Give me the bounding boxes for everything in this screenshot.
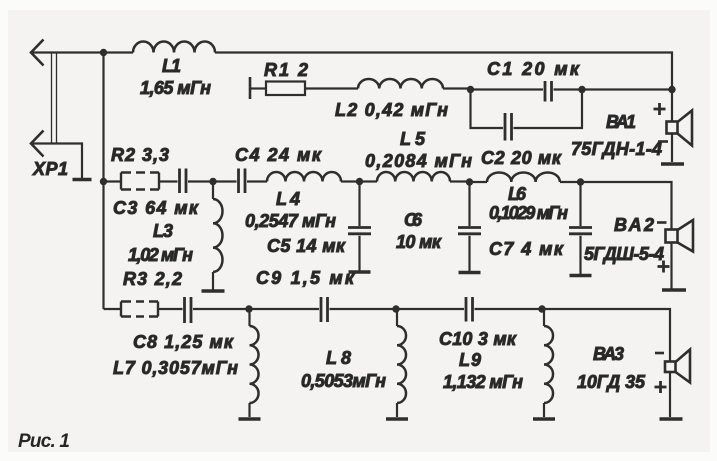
svg-text:0,2547 мГн: 0,2547 мГн <box>245 211 336 231</box>
node K <box>392 305 399 312</box>
node E (speaker BA1 top) <box>668 86 675 93</box>
svg-text:10ГД 35: 10ГД 35 <box>577 372 646 392</box>
wire node H to L6 <box>470 181 488 183</box>
capacitor C1 <box>545 81 552 102</box>
wire node F to C4 <box>213 180 237 182</box>
wire C4 to L4 <box>247 180 267 182</box>
resistor R3 (dashed) <box>121 302 158 317</box>
inductor L1 <box>133 42 215 53</box>
wire top row L1 to right corner <box>215 53 672 90</box>
wire node K to C10 <box>396 308 464 310</box>
svg-text:C9 1,5 мк: C9 1,5 мк <box>256 268 355 288</box>
inductor L3 (shunt) <box>213 182 222 290</box>
svg-text:5ГДШ-5-4: 5ГДШ-5-4 <box>584 244 664 264</box>
wire C10 to node L <box>475 308 543 310</box>
inductor L4 <box>267 172 341 182</box>
inductor L8 (shunt) <box>397 309 406 417</box>
svg-text:1,65 мГн: 1,65 мГн <box>140 78 211 98</box>
svg-text:10 мк: 10 мк <box>396 232 442 252</box>
svg-text:L1: L1 <box>162 56 181 76</box>
svg-text:R3 2,2: R3 2,2 <box>123 269 182 289</box>
polarity plus of BA2 <box>658 261 670 273</box>
chassis terminal bar of C6 <box>459 271 481 275</box>
wire L2 to node C <box>443 87 471 89</box>
node G <box>356 178 363 185</box>
svg-text:C8 1,25 мк: C8 1,25 мк <box>133 332 234 352</box>
wire node G to L5 <box>360 180 378 182</box>
chassis terminal bar of L8 <box>386 417 408 421</box>
svg-text:0,2084 мГн: 0,2084 мГн <box>365 151 472 171</box>
svg-text:C6: C6 <box>404 210 423 230</box>
svg-text:1,132 мГн: 1,132 мГн <box>443 372 523 392</box>
capacitor C5 (shunt) <box>348 182 371 271</box>
svg-text:C2 20 мк: C2 20 мк <box>481 148 562 168</box>
wire R1 to L2 <box>305 87 358 89</box>
chassis terminal bar of L3 <box>202 289 225 293</box>
capacitor C6 (shunt) <box>458 182 481 271</box>
wire BA2 to chassis terminal <box>670 243 672 289</box>
wire R3 to C8 <box>158 308 183 310</box>
capacitor C8 <box>185 297 192 323</box>
inductor L6 <box>487 173 560 183</box>
wire XP1 pin2 to chassis terminal <box>33 144 82 179</box>
node F <box>209 178 216 185</box>
wire C9 to node K <box>330 308 397 310</box>
capacitor C3 <box>180 169 187 194</box>
loudspeaker BA2 <box>666 220 694 252</box>
chassis terminal bar of L9 <box>533 417 555 421</box>
svg-text:L6: L6 <box>508 184 527 204</box>
wire left bus (vertical) <box>102 53 104 310</box>
node B (middle bus junction) <box>100 178 107 185</box>
wire parallel branch left drop <box>471 90 504 129</box>
connector XP1 pin 1 arrow <box>31 40 44 66</box>
wire node I to speaker BA2 <box>581 182 672 230</box>
inductor L2 <box>358 79 443 89</box>
svg-text:C10 3 мк: C10 3 мк <box>439 329 517 349</box>
node J <box>245 305 252 312</box>
svg-text:0,1029 мГн: 0,1029 мГн <box>489 203 568 223</box>
wire R1 terminal to body <box>250 87 266 89</box>
node H <box>466 178 473 185</box>
svg-text:C5 14 мк: C5 14 мк <box>267 236 346 256</box>
svg-text:ВА1: ВА1 <box>606 112 636 132</box>
node L <box>538 305 545 312</box>
loudspeaker BA3 <box>665 350 690 383</box>
polarity minus of BA1 <box>658 140 668 143</box>
svg-text:1,02 мГн: 1,02 мГн <box>128 245 193 265</box>
connector XP1 parallel cable lines <box>52 54 57 144</box>
svg-text:L7 0,3057мГн: L7 0,3057мГн <box>113 358 238 378</box>
polarity minus of BA2 <box>657 221 667 224</box>
chassis terminal bar of BA1 <box>661 162 684 166</box>
chassis terminal bar of L7 <box>239 417 261 421</box>
wire C3 to node F <box>188 180 213 182</box>
svg-text:L2 0,42 мГн: L2 0,42 мГн <box>335 100 448 120</box>
polarity plus of BA3 <box>655 381 667 393</box>
wire bus to R3 <box>104 308 122 310</box>
node A (top-left junction) <box>100 49 107 56</box>
polarity minus of BA3 <box>655 352 664 355</box>
node C (L2 output) <box>467 86 474 93</box>
wire node C to C1 <box>471 88 544 90</box>
wire XP1 pin1 to node top-left <box>33 51 133 53</box>
capacitor C4 <box>239 169 246 194</box>
svg-text:ХР1: ХР1 <box>32 159 68 179</box>
resistor R1 left terminal tick <box>249 77 252 99</box>
loudspeaker BA1 <box>667 111 693 146</box>
resistor R1 <box>266 82 305 96</box>
capacitor C10 <box>466 297 473 322</box>
wire L5 to node H <box>450 180 470 182</box>
chassis terminal bar of BA3 <box>660 417 683 421</box>
svg-text:L9: L9 <box>459 350 481 370</box>
wire parallel branch right rise <box>514 90 583 129</box>
chassis terminal bar of C5 <box>349 270 371 274</box>
svg-text:ВА2: ВА2 <box>614 215 654 235</box>
wire C8 to node J <box>193 308 249 310</box>
capacitor (unmarked, parallel with C1) <box>505 113 512 141</box>
wire BA1 to chassis terminal <box>671 134 673 163</box>
wire C1 to node D <box>554 88 583 90</box>
wire BA3 to chassis terminal <box>669 372 671 417</box>
svg-text:0,5053мГн: 0,5053мГн <box>301 371 386 391</box>
resistor R2 (dashed) <box>121 173 159 190</box>
wire L4 to node G <box>341 180 360 182</box>
wire node E to speaker BA1 <box>671 90 673 122</box>
capacitor C7 (shunt) <box>569 182 592 274</box>
wire node L to speaker BA3 <box>542 309 670 362</box>
inductor L7 (shunt) <box>250 309 259 417</box>
node I <box>577 178 584 185</box>
wire node D to node E <box>582 88 672 90</box>
chassis terminal bar of XP1 pin2 <box>73 178 92 181</box>
node D <box>578 86 585 93</box>
inductor L5 <box>377 172 450 182</box>
wire bus to R2 <box>104 180 122 182</box>
svg-text:R1 2: R1 2 <box>264 60 308 80</box>
connector XP1 pin 2 arrow <box>31 131 44 157</box>
svg-text:R2 3,3: R2 3,3 <box>111 145 169 165</box>
svg-text:L3: L3 <box>153 221 173 241</box>
wire R2 to C3 <box>159 180 178 182</box>
inductor L9 (shunt) <box>544 309 553 417</box>
svg-text:75ГДН-1-4: 75ГДН-1-4 <box>571 139 662 159</box>
polarity plus of BA1 <box>654 103 666 115</box>
wire L6 to node I <box>560 181 581 183</box>
chassis terminal bar of BA2 <box>662 288 686 292</box>
svg-text:C3 64 мк: C3 64 мк <box>113 198 199 218</box>
svg-text:ВА3: ВА3 <box>593 344 624 364</box>
capacitor C9 <box>321 297 328 322</box>
chassis terminal bar of C7 <box>570 274 592 278</box>
wire node J to C9 <box>249 308 319 310</box>
svg-text:Рис. 1: Рис. 1 <box>18 431 70 452</box>
